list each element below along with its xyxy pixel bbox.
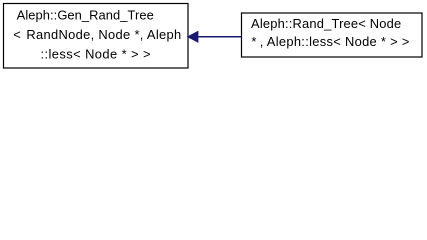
inheritance edge (wire) <box>188 32 242 43</box>
node box Aleph::Gen_Rand_Tree <box>4 4 189 69</box>
svg-text:Aleph::Rand_Tree< Node: Aleph::Rand_Tree< Node <box>251 16 401 31</box>
inheritance graph: Aleph::Gen_Rand_Tree <- Aleph::Rand_Tree <box>0 0 427 75</box>
svg-text:< RandNode, Node *, Aleph: < RandNode, Node *, Aleph <box>13 27 181 42</box>
svg-text:::less< Node * > >: ::less< Node * > > <box>41 47 151 62</box>
node box Aleph::Rand_Tree <box>242 13 423 57</box>
svg-text:Aleph::Gen_Rand_Tree: Aleph::Gen_Rand_Tree <box>17 8 154 23</box>
arrowhead <box>188 32 198 43</box>
svg-text:*, Aleph::less< Node * > >: *, Aleph::less< Node * > > <box>251 34 409 49</box>
